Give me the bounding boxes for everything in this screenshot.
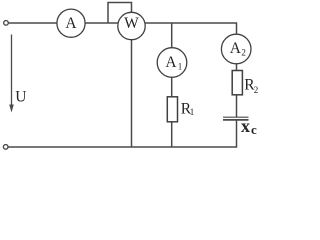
- wattmeter W: [118, 12, 145, 39]
- U arrow line: [11, 35, 13, 108]
- svg-text:2: 2: [241, 48, 246, 58]
- wattmeter current-coil loop: [108, 3, 132, 24]
- capacitor Xc top plate: [223, 116, 249, 118]
- terminal bottom-left: [3, 145, 8, 150]
- resistor R1: [167, 97, 177, 122]
- wire wattmeter voltage branch (below W): [131, 23, 133, 147]
- svg-text:W: W: [124, 15, 139, 32]
- wire right branch lower + bottom-right corner: [8, 120, 236, 147]
- resistor R2: [232, 71, 242, 95]
- svg-text:U: U: [15, 88, 26, 105]
- svg-text:A: A: [230, 40, 242, 57]
- ammeter A: [57, 9, 85, 37]
- wire A1/R1 branch: [171, 23, 173, 147]
- svg-text:x: x: [241, 116, 250, 136]
- capacitor Xc bottom plate: [223, 119, 249, 121]
- svg-text:1: 1: [178, 61, 183, 71]
- wire top rail: [8, 22, 236, 24]
- U arrowhead: [9, 105, 14, 113]
- wire right branch (A2/R2/Xc) upper: [236, 22, 238, 117]
- ammeter A2: [221, 34, 251, 64]
- svg-text:2: 2: [254, 85, 258, 95]
- ammeter A1: [157, 48, 187, 78]
- svg-text:1: 1: [190, 107, 195, 117]
- svg-text:A: A: [165, 54, 177, 71]
- terminal top-left: [4, 21, 9, 26]
- svg-text:c: c: [251, 122, 257, 137]
- svg-text:A: A: [65, 15, 77, 32]
